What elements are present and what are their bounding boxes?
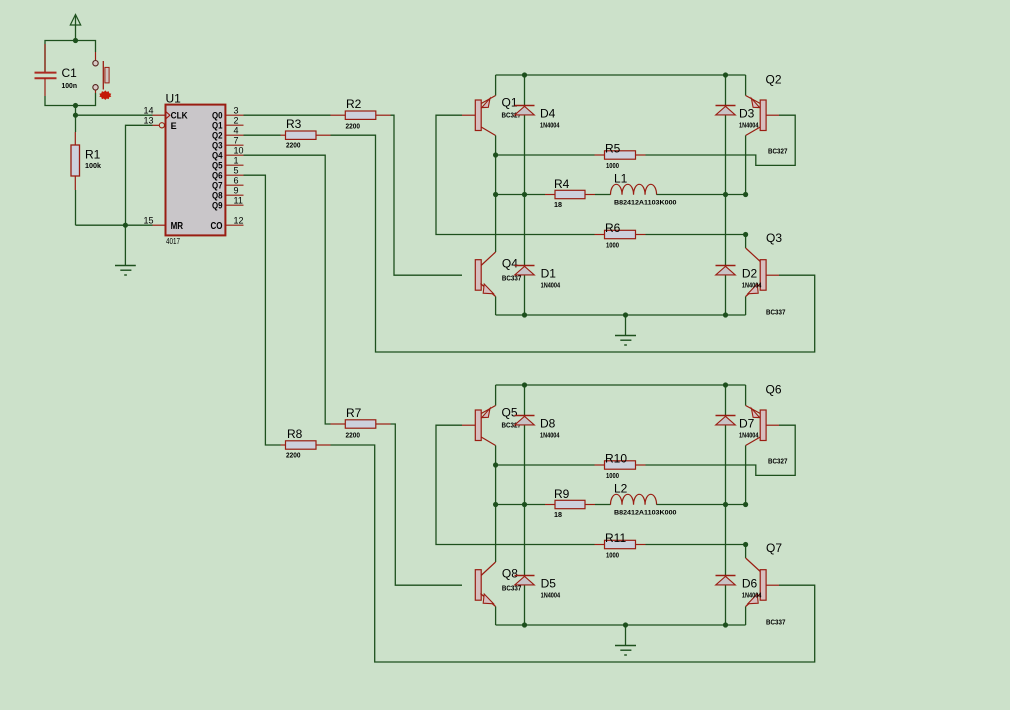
- wire R1 to MR: [76, 224, 153, 226]
- svg-text:Q3: Q3: [766, 231, 782, 245]
- diode D3 1N4004: [716, 106, 760, 130]
- svg-text:BC327: BC327: [768, 147, 788, 156]
- wire R2 to Q4 base: [391, 115, 463, 275]
- svg-text:Q5: Q5: [502, 406, 518, 420]
- U1 pin Q2: [212, 125, 244, 140]
- node B R6 dot: [743, 232, 748, 237]
- svg-text:Q8: Q8: [502, 567, 518, 581]
- resistor R2 2200: [331, 97, 391, 131]
- svg-text:7: 7: [234, 135, 239, 145]
- svg-text:1N4004: 1N4004: [541, 591, 561, 600]
- wire R3 to Q3 base: [331, 135, 815, 352]
- transistor Q1 BC327: [462, 75, 521, 136]
- node power junction: [73, 38, 78, 43]
- svg-text:R7: R7: [346, 406, 362, 420]
- svg-text:D8: D8: [540, 417, 556, 431]
- node bottom right: [723, 312, 728, 317]
- svg-text:1000: 1000: [606, 471, 619, 480]
- svg-text:R11: R11: [605, 531, 626, 545]
- resistor R5 1000: [496, 142, 646, 171]
- node bottom ground: [623, 312, 628, 317]
- svg-text:1000: 1000: [606, 241, 619, 250]
- node clock junction: [73, 113, 78, 118]
- U1 pin Q6: [212, 165, 244, 180]
- wire left bridge column: [495, 446, 497, 563]
- svg-text:Q1: Q1: [502, 96, 518, 110]
- svg-text:Q8: Q8: [212, 191, 223, 201]
- svg-text:Q2: Q2: [212, 131, 223, 141]
- wire Q2out to R3: [244, 134, 281, 136]
- capacitor C1: [35, 44, 78, 96]
- diode D6 1N4004: [716, 576, 763, 600]
- svg-text:CO: CO: [211, 221, 223, 232]
- svg-text:Q6: Q6: [212, 171, 223, 181]
- svg-text:10: 10: [234, 145, 244, 155]
- svg-text:D7: D7: [739, 417, 755, 431]
- wire R5 to Q2 base: [646, 115, 796, 165]
- node A left dot: [522, 192, 527, 197]
- svg-text:1: 1: [234, 155, 239, 165]
- resistor R3 2200: [281, 117, 331, 150]
- svg-text:D6: D6: [742, 577, 758, 591]
- node bottom left: [522, 312, 527, 317]
- wire R8 to Q7 base: [331, 445, 815, 662]
- U1 pin Q8: [212, 185, 244, 200]
- svg-text:6: 6: [234, 175, 239, 185]
- wire left diode column: [524, 385, 526, 625]
- node left column R5 row: [493, 152, 498, 157]
- svg-text:13: 13: [143, 115, 153, 125]
- svg-text:5: 5: [234, 165, 239, 175]
- node rail left: [522, 382, 527, 387]
- node left column A row: [493, 192, 498, 197]
- svg-text:1N4004: 1N4004: [540, 121, 560, 130]
- svg-text:18: 18: [554, 200, 562, 209]
- U1 pin MR: [143, 215, 183, 231]
- wire Q6out to R8: [244, 175, 281, 445]
- svg-text:BC327: BC327: [768, 457, 788, 466]
- wire R6 to node B: [646, 234, 746, 236]
- svg-text:R4: R4: [554, 177, 570, 191]
- diode D5 1N4004: [515, 576, 561, 600]
- node rail left: [522, 72, 527, 77]
- svg-text:2200: 2200: [346, 122, 361, 131]
- node A left dot: [522, 502, 527, 507]
- wire power rail top: [45, 41, 96, 73]
- wire R11 to node B: [646, 544, 746, 546]
- svg-text:R1: R1: [85, 148, 101, 162]
- ground symbol bridge L1: [615, 315, 636, 345]
- svg-text:R8: R8: [287, 427, 303, 441]
- wire R10 to Q6 base: [646, 425, 796, 475]
- svg-text:L1: L1: [614, 172, 628, 186]
- svg-text:D5: D5: [541, 577, 557, 591]
- svg-text:Q0: Q0: [212, 111, 223, 121]
- node rail right: [723, 72, 728, 77]
- svg-text:BC337: BC337: [766, 618, 786, 627]
- svg-text:4017: 4017: [166, 237, 180, 246]
- svg-text:Q2: Q2: [766, 73, 782, 87]
- svg-text:R6: R6: [605, 221, 621, 235]
- power symbol VCC: [70, 15, 80, 41]
- node rail right: [723, 382, 728, 387]
- svg-text:D1: D1: [541, 267, 557, 281]
- diode D1 1N4004: [515, 266, 561, 290]
- node B dots: [723, 502, 728, 507]
- U1 pin Q0: [212, 105, 244, 120]
- svg-text:2: 2: [234, 115, 239, 125]
- resistor R10 1000: [496, 452, 646, 481]
- ground symbol bridge L2: [615, 625, 636, 655]
- node left column R5 row: [493, 462, 498, 467]
- transistor Q5 BC327: [462, 385, 521, 446]
- svg-text:U1: U1: [166, 92, 182, 106]
- wire Q5 base to R feedback: [436, 425, 595, 544]
- svg-text:100n: 100n: [62, 81, 78, 90]
- svg-text:R3: R3: [286, 117, 302, 131]
- resistor R1: [71, 115, 102, 225]
- IC U1 4017 body: [166, 92, 226, 246]
- svg-text:100k: 100k: [85, 161, 102, 170]
- U1 pin E: [143, 115, 176, 130]
- wire E net: [126, 125, 153, 225]
- wire Q0 to R2: [244, 114, 331, 116]
- svg-text:Q1: Q1: [212, 121, 223, 131]
- diode D2 1N4004: [716, 266, 763, 290]
- node ground junction: [123, 223, 128, 228]
- svg-text:Q9: Q9: [212, 201, 223, 211]
- svg-text:1N4004: 1N4004: [742, 591, 762, 600]
- node B dots: [723, 192, 728, 197]
- wire bottom rail bridge L1: [496, 314, 746, 316]
- wire R7 to Q8 base: [391, 424, 463, 585]
- wire top rail bridge L1: [496, 74, 746, 76]
- svg-text:Q3: Q3: [212, 141, 223, 151]
- U1 clock wedge: [166, 112, 170, 119]
- diode D4 1N4004: [515, 106, 561, 130]
- svg-text:Q4: Q4: [502, 257, 518, 271]
- resistor R11 1000: [595, 531, 646, 560]
- U1 pin CLK: [143, 105, 188, 120]
- svg-text:1000: 1000: [606, 161, 619, 170]
- svg-text:B82412A1103K000: B82412A1103K000: [614, 200, 677, 207]
- svg-text:D3: D3: [739, 107, 755, 121]
- node bottom left: [522, 622, 527, 627]
- svg-text:1N4004: 1N4004: [541, 281, 561, 290]
- resistor R4 18: [496, 177, 595, 209]
- svg-text:B82412A1103K000: B82412A1103K000: [614, 510, 677, 517]
- U1 pin Q4: [212, 145, 244, 160]
- wire Q4out to R7: [244, 155, 331, 424]
- svg-text:BC337: BC337: [766, 308, 786, 317]
- U1 pin Q3: [212, 135, 244, 150]
- red state marker: [99, 90, 111, 100]
- svg-text:Q4: Q4: [212, 151, 223, 161]
- svg-text:L2: L2: [614, 482, 628, 496]
- wire left diode column: [524, 75, 526, 315]
- svg-text:R9: R9: [554, 487, 570, 501]
- resistor R6 1000: [595, 221, 646, 250]
- node bottom ground: [623, 622, 628, 627]
- transistor Q2 BC327: [746, 73, 788, 195]
- svg-text:D2: D2: [742, 267, 758, 281]
- transistor Q6 BC327: [746, 383, 788, 505]
- wire right diode column: [725, 75, 727, 315]
- transistor Q3 BC337: [746, 231, 786, 317]
- wire left bridge column: [495, 136, 497, 253]
- wire L1 to node B: [657, 194, 746, 196]
- svg-text:1N4004: 1N4004: [540, 431, 560, 440]
- node left column A row: [493, 502, 498, 507]
- svg-text:Q6: Q6: [766, 383, 782, 397]
- U1 pin CO: [211, 215, 244, 231]
- svg-text:12: 12: [234, 215, 244, 225]
- diode D8 1N4004: [515, 416, 561, 440]
- node C1 bottom junction: [73, 103, 78, 108]
- transistor Q7 BC337: [746, 541, 786, 627]
- svg-text:D4: D4: [540, 107, 556, 121]
- svg-text:3: 3: [234, 105, 239, 115]
- node bottom right: [723, 622, 728, 627]
- svg-text:1N4004: 1N4004: [739, 431, 759, 440]
- svg-text:11: 11: [234, 195, 243, 205]
- svg-text:Q5: Q5: [212, 161, 223, 171]
- svg-text:9: 9: [234, 185, 239, 195]
- wire L2 to node B: [657, 504, 746, 506]
- wire right diode column: [725, 385, 727, 625]
- U1 pin Q9: [212, 195, 244, 210]
- svg-text:1N4004: 1N4004: [742, 281, 762, 290]
- svg-text:C1: C1: [62, 66, 78, 80]
- wire clock node to CLK: [76, 106, 153, 116]
- wire C1 bottom loop: [45, 93, 96, 106]
- node B R6 dot: [743, 542, 748, 547]
- resistor R9 18: [496, 487, 595, 519]
- svg-text:2200: 2200: [346, 430, 361, 439]
- U1 pin Q1: [212, 115, 244, 130]
- svg-text:Q7: Q7: [212, 181, 223, 191]
- svg-text:MR: MR: [171, 221, 184, 232]
- wire top rail bridge L2: [496, 384, 746, 386]
- ground symbol left: [115, 225, 136, 275]
- svg-text:1N4004: 1N4004: [739, 121, 759, 130]
- U1 pin Q5: [212, 155, 244, 170]
- inductor L1 B82412A1103K000: [595, 172, 677, 207]
- transistor Q8 BC337: [475, 562, 521, 625]
- diode D7 1N4004: [716, 416, 760, 440]
- svg-text:14: 14: [143, 105, 153, 115]
- U1 pin Q7: [212, 175, 244, 190]
- svg-text:R5: R5: [605, 142, 621, 156]
- svg-text:Q7: Q7: [766, 541, 782, 555]
- resistor R8 2200: [281, 427, 331, 460]
- svg-text:R2: R2: [346, 97, 362, 111]
- svg-text:R10: R10: [605, 452, 627, 466]
- svg-text:2200: 2200: [286, 141, 301, 150]
- inductor L2 B82412A1103K000: [595, 482, 677, 517]
- button SW1: [93, 52, 109, 93]
- svg-text:CLK: CLK: [171, 111, 188, 121]
- wire bottom rail bridge L2: [496, 624, 746, 626]
- wire Q1 base to R feedback: [436, 115, 595, 234]
- svg-text:4: 4: [234, 125, 239, 135]
- resistor R7 2200: [331, 406, 391, 440]
- svg-text:18: 18: [554, 510, 562, 519]
- svg-text:E: E: [171, 121, 177, 131]
- svg-text:1000: 1000: [606, 551, 619, 560]
- transistor Q4 BC337: [475, 252, 521, 315]
- svg-text:2200: 2200: [286, 450, 301, 459]
- svg-text:15: 15: [143, 215, 153, 225]
